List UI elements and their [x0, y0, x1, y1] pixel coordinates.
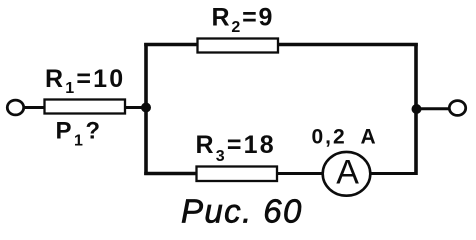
wire top left — [144, 43, 198, 46]
svg-text:0,2: 0,2 — [312, 125, 347, 148]
svg-text:R3=18: R3=18 — [196, 131, 276, 165]
wire R1 to node A — [125, 106, 147, 109]
terminal T2 (right) — [449, 101, 465, 116]
svg-text:A: A — [336, 154, 359, 192]
wire T1 to R1 — [24, 106, 46, 109]
wire node B to T2 — [421, 107, 450, 110]
svg-text:R2=9: R2=9 — [212, 4, 275, 37]
terminal T1 (left) — [7, 100, 23, 115]
wire right vertical — [414, 43, 418, 175]
resistor R2 — [198, 39, 279, 53]
node B (right junction) — [412, 104, 422, 114]
wire bottom left — [144, 172, 197, 175]
wire top right — [278, 43, 418, 46]
svg-text:Рис. 60: Рис. 60 — [181, 193, 303, 230]
ammeter A1 — [323, 152, 371, 196]
wire ammeter to node B — [370, 172, 417, 175]
node A (left junction) — [141, 103, 151, 113]
svg-text:A: A — [361, 125, 376, 148]
svg-text:R1=10: R1=10 — [45, 65, 125, 97]
svg-text:P1?: P1? — [56, 118, 103, 150]
resistor R1 — [45, 100, 126, 114]
resistor R3 — [197, 167, 278, 182]
wire R3 to ammeter — [277, 172, 324, 175]
wire left vertical — [144, 43, 148, 175]
